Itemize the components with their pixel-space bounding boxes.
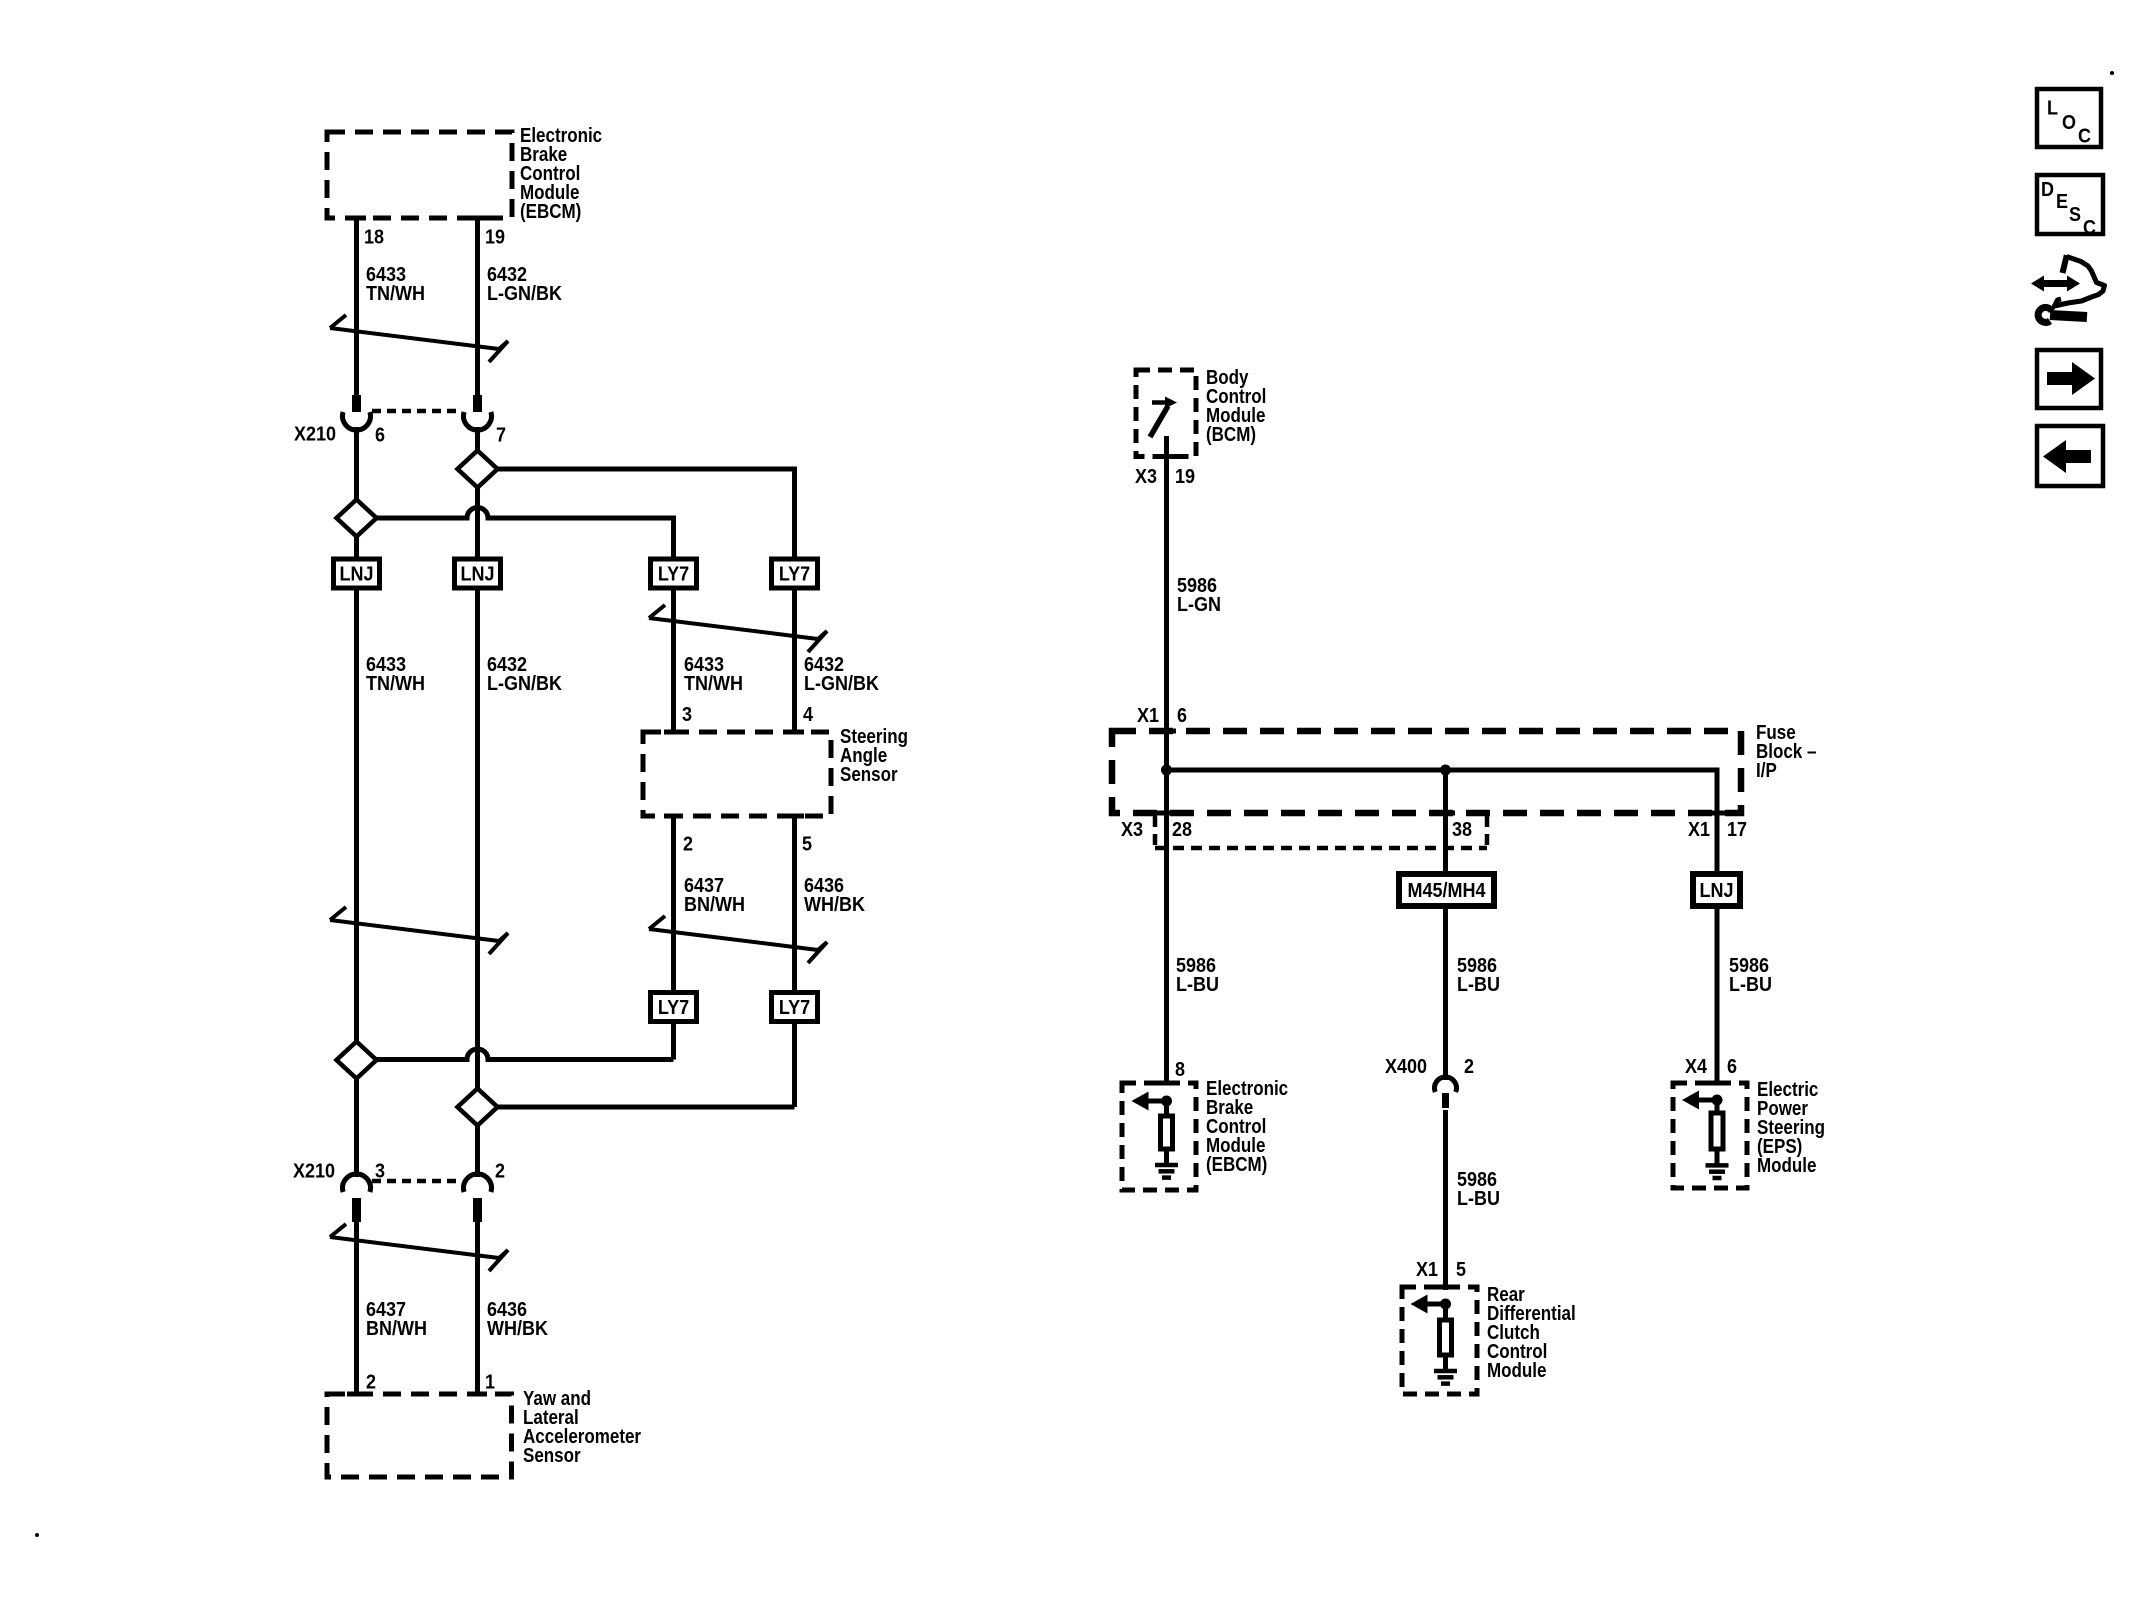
svg-text:17: 17 (1727, 819, 1747, 841)
svg-text:LY7: LY7 (658, 997, 689, 1019)
wire 6436 WH/BK to Yaw sensor pin 1 (475, 1222, 480, 1394)
wire 6437 BN/WH from SAS pin 2 (671, 816, 676, 992)
label circuit 5986 L-BU (lower) (1457, 1169, 1497, 1191)
svg-text:2: 2 (1464, 1056, 1474, 1078)
tick wire at EBCM box bottom pin 19 (468, 216, 487, 221)
svg-text:38: 38 (1452, 819, 1472, 841)
svg-text:S: S (2069, 204, 2081, 226)
wire 5986 L-BU fuse to M45/MH4 (1443, 770, 1448, 874)
pin 8 label EBCM (1175, 1059, 1185, 1081)
label circuit 6437 BN/WH (branch) (684, 875, 724, 897)
svg-text:Module: Module (1487, 1359, 1546, 1382)
svg-text:6: 6 (1177, 705, 1187, 727)
svg-text:(BCM): (BCM) (1206, 423, 1256, 446)
label circuit 6433 TN/WH (branch) (684, 654, 724, 676)
resistor element inside EPS (1711, 1113, 1723, 1149)
option box M45/MH4 (1399, 874, 1494, 906)
svg-text:(EBCM): (EBCM) (520, 200, 581, 223)
module Rear Differential Clutch Control box (1402, 1287, 1477, 1394)
option box LNJ (6432) (455, 559, 501, 588)
pin 4 label SAS (803, 704, 813, 726)
label EBCM load name (1206, 1077, 1288, 1100)
svg-text:7: 7 (496, 425, 506, 447)
wire 6433 to splice (354, 427, 359, 500)
pin 6 label fuse block input (1177, 705, 1187, 727)
stray dot top right (2110, 71, 2114, 75)
svg-text:(EBCM): (EBCM) (1206, 1153, 1267, 1176)
wire to resistor Rear Diff (1443, 1304, 1448, 1320)
svg-text:LY7: LY7 (658, 564, 689, 586)
svg-text:LNJ: LNJ (1700, 880, 1734, 902)
wire to resistor EBCM (1164, 1101, 1169, 1116)
svg-text:L-GN/BK: L-GN/BK (804, 673, 879, 695)
wire 5986 L-BU fuse to EBCM pin 8 (1164, 770, 1169, 1083)
svg-text:19: 19 (1175, 466, 1195, 488)
svg-text:BN/WH: BN/WH (684, 894, 745, 916)
wire 6433 TN/WH long run (354, 588, 359, 1042)
svg-text:L: L (2047, 98, 2058, 120)
wire 6437 BN/WH to Yaw sensor pin 2 (354, 1222, 359, 1394)
svg-text:BN/WH: BN/WH (366, 1318, 427, 1340)
connector X210 pin 2 (in-line) (464, 1174, 492, 1192)
wire 6432 branch to SAS pin 4 (792, 588, 797, 732)
svg-text:LY7: LY7 (779, 997, 810, 1019)
ground symbol inside Rear Diff (1434, 1369, 1457, 1374)
wire 6436 LY7 to splice rail (792, 1021, 797, 1107)
resistor element inside Rear Diff (1440, 1320, 1452, 1355)
svg-text:5: 5 (802, 834, 812, 856)
junction node fuse bus middle (1440, 765, 1451, 776)
pin 18 label EBCM (364, 227, 384, 249)
svg-text:WH/BK: WH/BK (804, 894, 865, 916)
svg-text:X4: X4 (1685, 1056, 1707, 1078)
wire splice branch 6436 (498, 1105, 795, 1110)
arrow and junction inside EPS (1697, 1098, 1717, 1103)
option box LY7 (6436 branch) (772, 993, 818, 1022)
svg-text:M45/MH4: M45/MH4 (1408, 880, 1486, 902)
pin 28 label fuse (1172, 819, 1192, 841)
pin 5 label Rear Diff (1456, 1259, 1466, 1281)
svg-text:X210: X210 (293, 1161, 335, 1183)
label connector X400 (1385, 1056, 1427, 1078)
svg-text:5: 5 (1456, 1259, 1466, 1281)
module EPS box (1673, 1083, 1747, 1188)
label circuit 6433 TN/WH (top) (366, 264, 406, 286)
svg-text:C: C (2078, 126, 2091, 148)
wire 6432 splice to LNJ (475, 487, 480, 559)
tick fuse bottom X1-17 (1708, 811, 1727, 816)
connector X210 pin 7 (in-line) (473, 395, 482, 412)
svg-text:O: O (2062, 112, 2076, 134)
label circuit 6436 WH/BK (branch) (804, 875, 844, 897)
svg-text:19: 19 (485, 227, 505, 249)
svg-text:X400: X400 (1385, 1056, 1427, 1078)
pin 38 label fuse (1452, 819, 1472, 841)
arrow and junction inside EBCM (1147, 1099, 1167, 1104)
tick SAS top pin 4 (785, 730, 804, 735)
svg-text:18: 18 (364, 227, 384, 249)
connector X210 dashed link (bottom) (372, 1179, 462, 1184)
svg-text:L-GN: L-GN (1177, 594, 1221, 616)
label circuit 6432 L-GN/BK (mid) (487, 654, 527, 676)
svg-text:X1: X1 (1137, 705, 1159, 727)
pin 3 label SAS (682, 704, 692, 726)
svg-text:X210: X210 (294, 424, 336, 446)
module BCM box (1136, 370, 1196, 457)
wire 6437 splice to X210 pin 3 (354, 1078, 359, 1177)
splice diamond on 6437 (337, 1042, 377, 1079)
ground symbol inside EPS (1706, 1163, 1729, 1168)
wire 6432 L-GN/BK long run (475, 588, 480, 1089)
label X4 EPS (1685, 1056, 1707, 1078)
wire resistor to ground EBCM (1164, 1149, 1169, 1165)
switch contact inside BCM (1152, 400, 1166, 405)
label BCM name (1206, 366, 1249, 389)
label circuit 5986 L-BU (right) (1729, 955, 1769, 977)
label EBCM (top) name (520, 124, 602, 147)
label X3 BCM pin (1135, 466, 1157, 488)
svg-text:L-BU: L-BU (1457, 1188, 1500, 1210)
pin 2 label X400 (1464, 1056, 1474, 1078)
pin 3 label X210 bottom (375, 1161, 385, 1183)
svg-text:L-BU: L-BU (1176, 974, 1219, 996)
svg-text:Module: Module (1757, 1154, 1816, 1177)
label Yaw sensor name (523, 1387, 591, 1410)
svg-text:6: 6 (375, 425, 385, 447)
option box LY7 (6437 branch) (651, 993, 697, 1022)
pin 19 label EBCM (485, 227, 505, 249)
wire splice branch 6433 to LY7 left column (hops over 6432) (377, 508, 674, 559)
splice diamond on 6436 (458, 1089, 498, 1126)
wire resistor to ground Rear Diff (1443, 1355, 1448, 1371)
svg-text:X3: X3 (1121, 819, 1143, 841)
tick fuse bottom 38 (1436, 811, 1455, 816)
wire 6433 branch to SAS pin 3 (671, 588, 676, 732)
wire 5986 L-BU LNJ to EPS (1715, 906, 1720, 1083)
wire resistor to ground EPS (1715, 1149, 1720, 1165)
pin 6 label X210 (375, 425, 385, 447)
svg-text:X1: X1 (1416, 1259, 1438, 1281)
label circuit 6432 L-GN/BK (top) (487, 264, 527, 286)
pin 2 label SAS bottom (683, 834, 693, 856)
svg-text:WH/BK: WH/BK (487, 1318, 548, 1340)
svg-text:28: 28 (1172, 819, 1192, 841)
svg-text:TN/WH: TN/WH (366, 673, 425, 695)
wire 6436 splice to X210 pin 2 (475, 1125, 480, 1177)
svg-text:2: 2 (495, 1161, 505, 1183)
ground symbol inside EBCM (1155, 1163, 1178, 1168)
tick wire at EBCM box bottom pin 18 (347, 216, 366, 221)
off-page continuation arrow (top pair) (330, 315, 346, 328)
module EBCM (top) box (327, 132, 512, 218)
connector X400 pin 2 (in-line) (1435, 1077, 1457, 1092)
label X3 fuse connector (1121, 819, 1143, 841)
wire 6432 to splice (475, 427, 480, 451)
option box LY7 (6433 branch) (651, 559, 697, 588)
svg-text:TN/WH: TN/WH (366, 283, 425, 305)
svg-text:X3: X3 (1135, 466, 1157, 488)
connector X210 dashed link (top) (372, 409, 462, 414)
connector X210 pin 3 (in-line) (343, 1174, 371, 1192)
module EBCM (load) box (1122, 1083, 1196, 1190)
svg-text:C: C (2083, 217, 2096, 239)
svg-text:1: 1 (485, 1372, 495, 1394)
icon button LOC (2037, 89, 2101, 147)
label circuit 6432 L-GN/BK (branch) (804, 654, 844, 676)
tick EPS top pin 6 (1708, 1081, 1727, 1086)
label circuit 6437 BN/WH (bottom) (366, 1299, 406, 1321)
svg-text:E: E (2056, 191, 2068, 213)
off-page continuation arrow (LY7 pair upper) (649, 605, 665, 618)
tick SAS bottom pin 5 (785, 814, 804, 819)
option box LY7 (6432 branch) (772, 559, 818, 588)
stray dot bottom left (35, 1533, 39, 1537)
module Steering Angle Sensor box (643, 732, 831, 816)
arrow and junction inside Rear Diff module (1426, 1302, 1446, 1307)
label EPS module name (1757, 1078, 1818, 1101)
svg-text:LNJ: LNJ (461, 564, 495, 586)
icon button DESC (2037, 175, 2103, 234)
wire 5986 L-GN from BCM X3-19 (1164, 436, 1169, 770)
tick fuse block top pin X1-6 (1157, 729, 1176, 734)
connector X210 pin 6 (in-line) (352, 395, 361, 412)
label circuit 5986 L-GN (1177, 575, 1217, 597)
pin 2 label X210 bottom (495, 1161, 505, 1183)
junction node fuse bus left (1161, 765, 1172, 776)
wire 5986 L-BU X400 to Rear Diff module (1443, 1110, 1448, 1290)
wire 6433 TN/WH from EBCM pin 18 (354, 218, 359, 395)
svg-text:8: 8 (1175, 1059, 1185, 1081)
splice diamond on 6432 (458, 451, 498, 488)
svg-text:4: 4 (803, 704, 813, 726)
option box LNJ (6433) (334, 559, 380, 588)
tick Rear Diff top pin 5 (1436, 1285, 1455, 1290)
pin 5 label SAS bottom (802, 834, 812, 856)
pin 19 label BCM (1175, 466, 1195, 488)
svg-text:L-GN/BK: L-GN/BK (487, 283, 562, 305)
svg-text:2: 2 (683, 834, 693, 856)
pin 17 label fuse (1727, 819, 1747, 841)
option box LNJ (right) (1693, 874, 1740, 906)
svg-text:2: 2 (366, 1372, 376, 1394)
module Yaw and Lateral Accelerometer Sensor box (327, 1394, 512, 1477)
wire to resistor EPS (1715, 1100, 1720, 1113)
tick Yaw pin 2 (347, 1392, 366, 1397)
splice diamond on 6433 (337, 500, 377, 537)
wire 5986 L-BU M45/MH4 to X400 (1443, 906, 1448, 1080)
label circuit 5986 L-BU (left) (1176, 955, 1216, 977)
svg-text:LY7: LY7 (779, 564, 810, 586)
wire 6436 WH/BK from SAS pin 5 (792, 816, 797, 992)
bus wire inside fuse block (1167, 770, 1718, 874)
resistor element inside EBCM (1161, 1116, 1173, 1149)
tick SAS bottom pin 2 (664, 814, 683, 819)
icon button arrow left (2037, 426, 2103, 486)
icon button arrow right (2037, 350, 2101, 408)
label X1 Rear Diff (1416, 1259, 1438, 1281)
wire splice branch 6432 to LY7 right column (498, 469, 795, 559)
svg-text:L-GN/BK: L-GN/BK (487, 673, 562, 695)
label circuit 6436 WH/BK (bottom) (487, 1299, 527, 1321)
tick SAS top pin 3 (664, 730, 683, 735)
tick Yaw pin 1 (468, 1392, 487, 1397)
label X1 fuse connector (1688, 819, 1710, 841)
svg-text:3: 3 (682, 704, 692, 726)
off-page continuation arrow (bottom pair) (330, 1224, 346, 1237)
svg-text:TN/WH: TN/WH (684, 673, 743, 695)
pin 6 label EPS (1727, 1056, 1737, 1078)
off-page continuation arrow (LY7 pair lower) (649, 916, 665, 929)
wire 6433 splice to LNJ (354, 536, 359, 559)
pin 2 label Yaw sensor (366, 1372, 376, 1394)
wire 6437 LY7 to splice rail (671, 1021, 676, 1060)
svg-text:6: 6 (1727, 1056, 1737, 1078)
wire 6432 L-GN/BK from EBCM pin 19 (475, 218, 480, 395)
pin 7 label X210 (496, 425, 506, 447)
label Fuse Block I/P name (1756, 721, 1796, 744)
label X1 fuse block input (1137, 705, 1159, 727)
tick EBCM load top pin 8 (1157, 1081, 1176, 1086)
label X210 (top) (294, 424, 336, 446)
svg-text:Sensor: Sensor (840, 763, 898, 786)
svg-text:D: D (2041, 179, 2054, 201)
svg-text:L-BU: L-BU (1729, 974, 1772, 996)
tick BCM bottom pin (1157, 454, 1176, 459)
svg-text:L-BU: L-BU (1457, 974, 1500, 996)
label circuit 5986 L-BU (middle) (1457, 955, 1497, 977)
connector face X3 dashed sub-box of fuse block (1155, 816, 1487, 848)
icon vehicle with double arrow and wrench (2031, 276, 2044, 292)
svg-text:I/P: I/P (1756, 759, 1777, 782)
tick fuse bottom X3-28 (1157, 811, 1176, 816)
label Rear Diff module name (1487, 1283, 1525, 1306)
off-page continuation arrow (main pair mid) (330, 907, 346, 920)
label circuit 6433 TN/WH (mid) (366, 654, 406, 676)
label Steering Angle Sensor name (840, 725, 908, 748)
svg-text:Sensor: Sensor (523, 1444, 581, 1467)
label X210 (bottom) (293, 1161, 335, 1183)
pin 1 label Yaw sensor (485, 1372, 495, 1394)
Fuse Block I/P box (1112, 731, 1741, 813)
svg-text:X1: X1 (1688, 819, 1710, 841)
svg-text:LNJ: LNJ (340, 564, 374, 586)
wire splice branch 6437 (hops over 6436) (377, 1049, 674, 1060)
